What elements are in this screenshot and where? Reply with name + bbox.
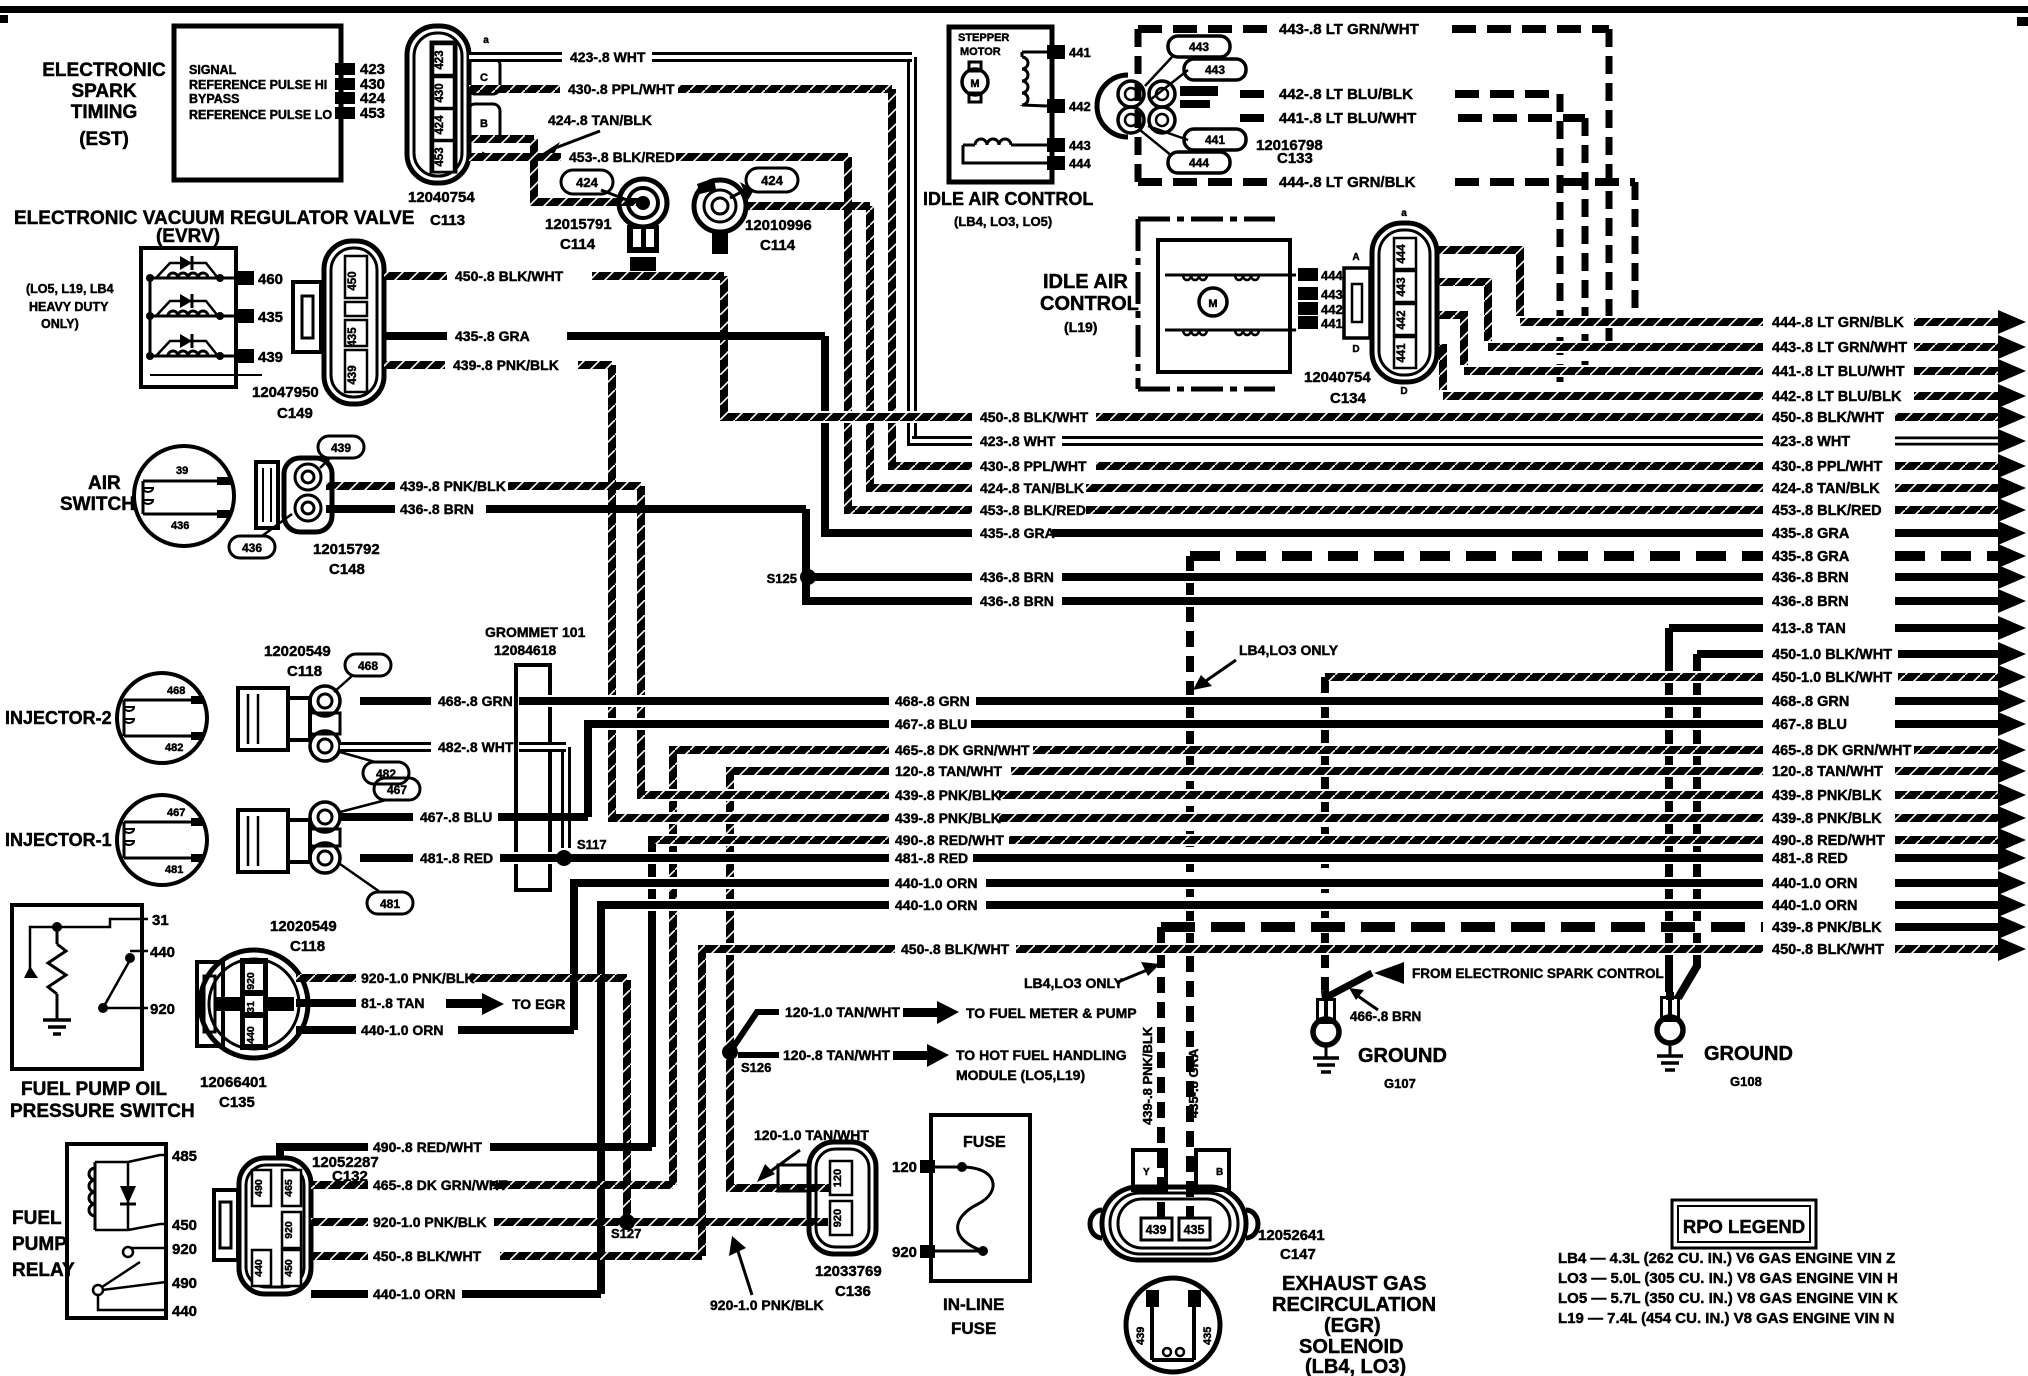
svg-text:424-.8 TAN/BLK: 424-.8 TAN/BLK [1772,481,1880,497]
svg-text:Y: Y [1143,1167,1150,1178]
svg-text:436-.8 BRN: 436-.8 BRN [1772,570,1849,586]
svg-text:C114: C114 [560,236,596,253]
svg-text:468-.8 GRN: 468-.8 GRN [1772,694,1849,710]
svg-text:424-.8 TAN/BLK: 424-.8 TAN/BLK [980,480,1084,496]
svg-text:442-.8 LT BLU/BLK: 442-.8 LT BLU/BLK [1279,86,1413,103]
svg-text:465-.8 DK GRN/WHT: 465-.8 DK GRN/WHT [1772,743,1912,759]
svg-text:RPO LEGEND: RPO LEGEND [1683,1216,1805,1237]
svg-text:424: 424 [761,173,783,188]
svg-text:440-1.0 ORN: 440-1.0 ORN [373,1286,455,1302]
svg-text:920: 920 [172,1241,197,1258]
svg-text:440-1.0 ORN: 440-1.0 ORN [1772,876,1857,892]
svg-text:443: 443 [1205,63,1225,77]
svg-text:LB4 — 4.3L (262 CU. IN.) V6 GA: LB4 — 4.3L (262 CU. IN.) V6 GAS ENGINE V… [1558,1250,1895,1267]
svg-text:443-.8 LT GRN/WHT: 443-.8 LT GRN/WHT [1772,340,1907,356]
svg-text:441: 441 [1205,133,1225,147]
svg-text:439: 439 [1135,1327,1147,1345]
svg-text:465: 465 [283,1179,295,1197]
svg-text:12015791: 12015791 [545,216,612,233]
svg-text:920-1.0 PNK/BLK: 920-1.0 PNK/BLK [373,1214,487,1230]
svg-text:443: 443 [1069,138,1091,153]
svg-text:435-.8 GRA: 435-.8 GRA [455,328,530,344]
svg-text:436-.8 BRN: 436-.8 BRN [400,501,474,517]
svg-text:M: M [970,78,979,90]
svg-text:a: a [483,35,489,46]
svg-text:424: 424 [434,115,446,135]
svg-text:TIMING: TIMING [71,102,138,123]
svg-text:466-.8 BRN: 466-.8 BRN [1350,1009,1421,1024]
svg-text:443: 443 [1189,40,1209,54]
svg-text:435-.8 GRA: 435-.8 GRA [980,525,1055,541]
svg-text:C118: C118 [290,938,325,955]
svg-text:(LB4, LO3): (LB4, LO3) [1305,1356,1406,1376]
svg-text:413-.8 TAN: 413-.8 TAN [1772,621,1846,637]
svg-text:430-.8 PPL/WHT: 430-.8 PPL/WHT [568,81,675,97]
svg-text:C113: C113 [430,212,465,229]
svg-text:440-1.0 ORN: 440-1.0 ORN [1772,898,1857,914]
svg-text:436-.8 BRN: 436-.8 BRN [980,569,1054,585]
svg-text:SIGNAL: SIGNAL [189,63,237,77]
svg-text:481: 481 [165,864,183,876]
svg-text:439: 439 [258,349,283,366]
svg-text:a: a [1401,208,1407,219]
svg-text:IDLE AIR: IDLE AIR [1043,271,1128,293]
svg-text:436-.8 BRN: 436-.8 BRN [980,593,1054,609]
svg-text:423: 423 [434,50,446,69]
svg-text:444: 444 [1396,244,1408,264]
svg-text:441: 441 [1069,45,1091,60]
svg-text:443: 443 [1396,277,1408,296]
svg-text:TO HOT FUEL HANDLING: TO HOT FUEL HANDLING [956,1047,1127,1063]
svg-text:490-.8 RED/WHT: 490-.8 RED/WHT [373,1139,482,1155]
svg-text:920: 920 [245,972,257,990]
svg-text:SOLENOID: SOLENOID [1299,1336,1403,1358]
svg-text:D: D [1352,344,1359,355]
svg-text:FUSE: FUSE [963,1134,1006,1151]
svg-text:PRESSURE SWITCH: PRESSURE SWITCH [10,1101,195,1122]
svg-text:12015792: 12015792 [313,541,380,558]
svg-text:423-.8 WHT: 423-.8 WHT [980,433,1056,449]
svg-text:453-.8 BLK/RED: 453-.8 BLK/RED [569,149,675,165]
svg-text:120-.8 TAN/WHT: 120-.8 TAN/WHT [783,1047,891,1063]
svg-text:12040754: 12040754 [408,189,475,206]
svg-text:(LO5, L19, LB4: (LO5, L19, LB4 [26,282,114,296]
svg-text:450: 450 [172,1217,197,1234]
svg-text:439-.8 PNK/BLK: 439-.8 PNK/BLK [1772,811,1882,827]
svg-text:467: 467 [387,783,407,797]
svg-text:490: 490 [172,1275,197,1292]
svg-text:450: 450 [347,271,359,290]
svg-text:481: 481 [380,897,400,911]
svg-text:435: 435 [258,309,283,326]
svg-text:81-.8 TAN: 81-.8 TAN [361,995,425,1011]
svg-text:STEPPER: STEPPER [958,32,1009,44]
svg-text:450-.8 BLK/WHT: 450-.8 BLK/WHT [980,409,1089,425]
svg-text:440-1.0 ORN: 440-1.0 ORN [361,1022,443,1038]
svg-text:442: 442 [1396,310,1408,329]
svg-text:C133: C133 [1277,150,1313,167]
svg-text:465-.8 DK GRN/WHT: 465-.8 DK GRN/WHT [895,742,1030,758]
svg-text:468-.8 GRN: 468-.8 GRN [438,693,513,709]
svg-text:444-.8 LT GRN/BLK: 444-.8 LT GRN/BLK [1772,315,1904,331]
svg-text:C148: C148 [329,561,365,578]
svg-text:IDLE AIR CONTROL: IDLE AIR CONTROL [923,189,1093,209]
svg-text:FUEL PUMP OIL: FUEL PUMP OIL [21,1079,167,1100]
svg-text:435: 435 [1184,1223,1205,1237]
svg-text:440-1.0 ORN: 440-1.0 ORN [895,875,977,891]
svg-text:482: 482 [165,742,183,754]
svg-text:C118: C118 [287,663,322,680]
svg-text:439-.8 PNK/BLK: 439-.8 PNK/BLK [400,478,506,494]
svg-text:MODULE (LO5,L19): MODULE (LO5,L19) [956,1067,1085,1083]
svg-text:12047950: 12047950 [252,384,319,401]
svg-text:M: M [1208,298,1217,310]
svg-text:450-.8 BLK/WHT: 450-.8 BLK/WHT [373,1248,482,1264]
svg-text:31: 31 [152,912,169,929]
svg-text:490: 490 [253,1179,265,1197]
svg-text:ELECTRONIC: ELECTRONIC [42,60,166,81]
svg-text:S125: S125 [767,571,797,586]
svg-text:REFERENCE PULSE LO: REFERENCE PULSE LO [189,108,332,122]
svg-text:920: 920 [832,1209,844,1227]
svg-text:435: 435 [1202,1327,1214,1345]
svg-text:12020549: 12020549 [264,643,331,660]
svg-text:39: 39 [176,465,188,477]
svg-text:441: 441 [1321,316,1343,331]
svg-text:467: 467 [167,807,185,819]
svg-text:FUSE: FUSE [951,1319,996,1338]
svg-text:423-.8 WHT: 423-.8 WHT [1772,434,1850,450]
svg-text:A: A [1352,252,1359,263]
svg-text:439-.8 PNK/BLK: 439-.8 PNK/BLK [1772,788,1882,804]
svg-text:ONLY): ONLY) [41,317,79,331]
svg-text:440: 440 [253,1259,265,1277]
svg-text:LB4,LO3 ONLY: LB4,LO3 ONLY [1024,975,1124,991]
svg-text:439-.8 PNK/BLK: 439-.8 PNK/BLK [895,810,1001,826]
svg-text:C147: C147 [1280,1246,1316,1263]
svg-text:439: 439 [331,441,351,455]
svg-text:444-.8 LT GRN/BLK: 444-.8 LT GRN/BLK [1279,174,1416,191]
svg-text:RELAY: RELAY [12,1260,75,1281]
svg-text:453: 453 [360,105,385,122]
svg-text:(LB4, LO3, LO5): (LB4, LO3, LO5) [954,214,1052,229]
svg-text:441-.8 LT BLU/WHT: 441-.8 LT BLU/WHT [1279,110,1416,127]
svg-text:L19 — 7.4L (454 CU. IN.) V8 GA: L19 — 7.4L (454 CU. IN.) V8 GAS ENGINE V… [1558,1310,1894,1327]
svg-text:120-1.0 TAN/WHT: 120-1.0 TAN/WHT [785,1004,900,1020]
svg-text:465-.8 DK GRN/WHT: 465-.8 DK GRN/WHT [373,1177,508,1193]
svg-text:467-.8 BLU: 467-.8 BLU [1772,717,1847,733]
svg-text:440: 440 [172,1303,197,1320]
svg-text:GROUND: GROUND [1704,1043,1793,1065]
svg-text:481-.8 RED: 481-.8 RED [420,850,493,866]
svg-text:MOTOR: MOTOR [960,46,1001,58]
svg-text:443: 443 [1321,287,1343,302]
svg-text:440-1.0 ORN: 440-1.0 ORN [895,897,977,913]
svg-text:485: 485 [172,1148,197,1165]
svg-text:442: 442 [1069,99,1091,114]
svg-text:439: 439 [1146,1223,1167,1237]
svg-text:INJECTOR-1: INJECTOR-1 [5,830,112,850]
svg-text:S117: S117 [577,837,607,852]
svg-text:B: B [1216,1167,1223,1178]
svg-text:467-.8 BLU: 467-.8 BLU [420,809,492,825]
svg-text:453-.8 BLK/RED: 453-.8 BLK/RED [980,502,1086,518]
svg-text:120: 120 [892,1159,917,1176]
svg-text:442: 442 [1321,302,1343,317]
svg-text:439-.8 PNK/BLK: 439-.8 PNK/BLK [1772,920,1882,936]
svg-text:INJECTOR-2: INJECTOR-2 [5,708,112,728]
svg-text:920-1.0 PNK/BLK: 920-1.0 PNK/BLK [710,1297,824,1313]
svg-text:430-.8 PPL/WHT: 430-.8 PPL/WHT [1772,459,1883,475]
svg-text:444: 444 [1069,156,1091,171]
svg-text:481-.8 RED: 481-.8 RED [1772,851,1848,867]
svg-text:481-.8 RED: 481-.8 RED [895,850,968,866]
svg-text:LB4,LO3 ONLY: LB4,LO3 ONLY [1239,642,1339,658]
svg-text:439: 439 [347,365,359,384]
svg-text:435-.8 GRA: 435-.8 GRA [1186,1048,1201,1118]
svg-text:468-.8 GRN: 468-.8 GRN [895,693,970,709]
svg-text:12020549: 12020549 [270,918,337,935]
svg-text:C135: C135 [219,1094,255,1111]
svg-text:482-.8 WHT: 482-.8 WHT [438,739,514,755]
svg-text:TO FUEL METER & PUMP: TO FUEL METER & PUMP [966,1005,1137,1021]
svg-text:450-1.0 BLK/WHT: 450-1.0 BLK/WHT [1772,670,1892,686]
svg-text:IN-LINE: IN-LINE [943,1295,1004,1314]
svg-text:424: 424 [576,175,598,190]
svg-text:SPARK: SPARK [71,81,136,102]
svg-text:BYPASS: BYPASS [189,92,239,106]
svg-text:120: 120 [832,1169,844,1187]
svg-text:468: 468 [358,659,378,673]
svg-text:GROUND: GROUND [1358,1045,1447,1067]
svg-text:920-1.0 PNK/BLK: 920-1.0 PNK/BLK [361,970,475,986]
svg-text:B: B [480,118,488,130]
svg-text:TO EGR: TO EGR [512,996,565,1012]
svg-text:436-.8 BRN: 436-.8 BRN [1772,594,1849,610]
svg-text:441-.8 LT BLU/WHT: 441-.8 LT BLU/WHT [1772,364,1905,380]
svg-text:12033769: 12033769 [815,1263,882,1280]
svg-text:441: 441 [1396,343,1408,363]
svg-text:440: 440 [245,1026,257,1044]
svg-text:12010996: 12010996 [745,217,812,234]
svg-text:GROMMET 101: GROMMET 101 [485,624,586,640]
svg-text:920: 920 [150,1001,175,1018]
svg-text:435: 435 [347,327,359,347]
svg-text:(EST): (EST) [79,129,129,150]
svg-text:FROM ELECTRONIC SPARK CONTROL: FROM ELECTRONIC SPARK CONTROL [1412,966,1664,981]
svg-text:C136: C136 [835,1283,871,1300]
svg-text:490-.8 RED/WHT: 490-.8 RED/WHT [895,832,1004,848]
svg-text:490-.8 RED/WHT: 490-.8 RED/WHT [1772,833,1885,849]
svg-text:C114: C114 [760,237,796,254]
svg-text:453: 453 [434,147,446,166]
svg-text:436: 436 [171,520,189,532]
svg-text:430-.8 PPL/WHT: 430-.8 PPL/WHT [980,458,1087,474]
svg-text:450-.8 BLK/WHT: 450-.8 BLK/WHT [455,268,564,284]
svg-text:EXHAUST GAS: EXHAUST GAS [1282,1273,1426,1295]
svg-text:120-.8 TAN/WHT: 120-.8 TAN/WHT [895,763,1003,779]
svg-text:PUMP: PUMP [12,1234,67,1255]
svg-text:460: 460 [258,271,283,288]
svg-text:C149: C149 [277,405,313,422]
svg-text:439-.8 PNK/BLK: 439-.8 PNK/BLK [453,357,559,373]
svg-text:439-.8 PNK/BLK: 439-.8 PNK/BLK [895,787,1001,803]
svg-text:423-.8 WHT: 423-.8 WHT [570,49,646,65]
svg-text:450-.8 BLK/WHT: 450-.8 BLK/WHT [1772,942,1884,958]
svg-text:S127: S127 [611,1226,641,1241]
svg-text:453-.8 BLK/RED: 453-.8 BLK/RED [1772,503,1882,519]
svg-text:12084618: 12084618 [494,642,557,658]
svg-text:444: 444 [1321,268,1343,283]
svg-text:C: C [480,72,488,84]
svg-text:12066401: 12066401 [200,1074,267,1091]
svg-text:920: 920 [892,1244,917,1261]
svg-text:12052641: 12052641 [1258,1227,1325,1244]
svg-text:442-.8 LT BLU/BLK: 442-.8 LT BLU/BLK [1772,389,1902,405]
svg-text:435-.8 GRA: 435-.8 GRA [1772,526,1850,542]
svg-text:CONTROL: CONTROL [1040,293,1139,315]
svg-text:(EGR): (EGR) [1324,1315,1381,1337]
svg-text:450-.8 BLK/WHT: 450-.8 BLK/WHT [1772,410,1884,426]
svg-text:HEAVY DUTY: HEAVY DUTY [29,300,109,314]
svg-text:436: 436 [242,541,262,555]
svg-text:31: 31 [245,1001,257,1013]
svg-text:435-.8 GRA: 435-.8 GRA [1772,549,1850,565]
svg-text:LO5 — 5.7L (350 CU. IN.) V8 GA: LO5 — 5.7L (350 CU. IN.) V8 GAS ENGINE V… [1558,1290,1898,1307]
svg-text:120-.8 TAN/WHT: 120-.8 TAN/WHT [1772,764,1883,780]
svg-text:G107: G107 [1384,1076,1416,1091]
svg-text:(EVRV): (EVRV) [156,226,220,247]
svg-text:430: 430 [434,83,446,102]
svg-text:RECIRCULATION: RECIRCULATION [1272,1294,1436,1316]
svg-text:439-.8 PNK/BLK: 439-.8 PNK/BLK [1140,1026,1155,1125]
svg-text:(L19): (L19) [1064,319,1097,335]
svg-text:S126: S126 [741,1060,771,1075]
svg-text:REFERENCE PULSE HI: REFERENCE PULSE HI [189,78,327,92]
svg-text:SWITCH: SWITCH [60,494,135,515]
svg-text:443-.8 LT GRN/WHT: 443-.8 LT GRN/WHT [1279,21,1419,38]
svg-text:D: D [1400,386,1407,397]
svg-text:444: 444 [1189,156,1209,170]
svg-text:FUEL: FUEL [12,1208,62,1229]
svg-text:440: 440 [150,944,175,961]
svg-text:424-.8 TAN/BLK: 424-.8 TAN/BLK [548,112,652,128]
svg-text:468: 468 [167,685,185,697]
svg-text:467-.8 BLU: 467-.8 BLU [895,716,967,732]
svg-text:450-1.0 BLK/WHT: 450-1.0 BLK/WHT [1772,647,1892,663]
svg-text:450: 450 [283,1259,295,1277]
svg-text:450-.8 BLK/WHT: 450-.8 BLK/WHT [901,941,1010,957]
svg-text:LO3 — 5.0L (305 CU. IN.) V8 GA: LO3 — 5.0L (305 CU. IN.) V8 GAS ENGINE V… [1558,1270,1898,1287]
svg-text:12040754: 12040754 [1304,369,1371,386]
svg-text:920: 920 [283,1221,295,1239]
svg-text:C134: C134 [1330,390,1367,407]
svg-text:G108: G108 [1730,1074,1762,1089]
svg-text:AIR: AIR [88,473,121,494]
